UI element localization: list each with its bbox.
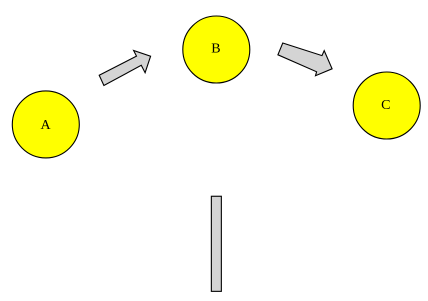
- circle C: [353, 72, 420, 139]
- svg-text:A: A: [41, 118, 52, 133]
- svg-text:B: B: [211, 42, 220, 57]
- svg-text:C: C: [381, 98, 390, 113]
- vertical bar: [211, 196, 221, 291]
- circle B: [183, 16, 250, 83]
- arrow B to C: [278, 43, 332, 76]
- circle A: [12, 91, 79, 158]
- arrow A to B: [99, 51, 150, 86]
